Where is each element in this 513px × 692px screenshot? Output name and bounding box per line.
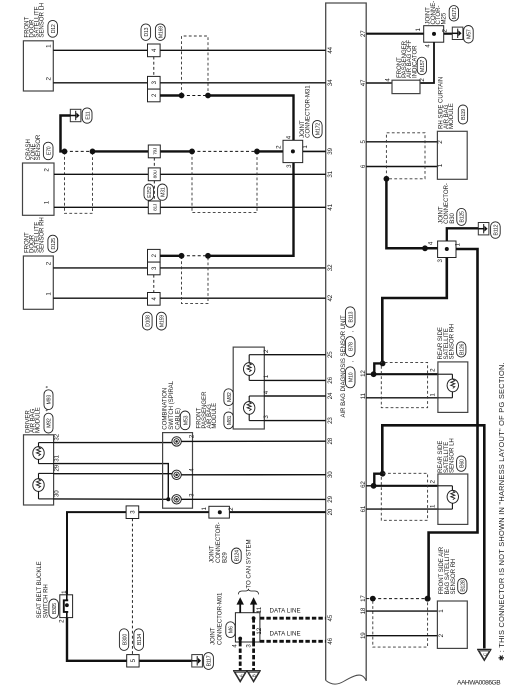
svg-text:E11: E11 <box>85 111 91 119</box>
svg-text:32: 32 <box>327 264 334 271</box>
svg-text:B29: B29 <box>222 552 229 563</box>
svg-text:M171: M171 <box>452 7 458 19</box>
svg-text:25: 25 <box>327 351 334 358</box>
svg-text:20: 20 <box>327 508 334 515</box>
svg-text:47: 47 <box>360 79 367 86</box>
wires passenger module to unit 25/26/24/23 <box>264 354 325 356</box>
wire D125 pin2 to unit 32 <box>53 267 325 269</box>
svg-text:CONNECTOR-M01: CONNECTOR-M01 <box>217 592 224 645</box>
svg-text:CONNECTOR-M31: CONNECTOR-M31 <box>305 85 312 138</box>
spiral cable terminals <box>172 437 181 446</box>
joint connector B30 (B125) <box>438 241 456 258</box>
svg-text:AIR BAG DIAGNOSIS SENSOR UNIT: AIR BAG DIAGNOSIS SENSOR UNIT <box>340 315 347 417</box>
combination switch (spiral cable) M53 <box>163 433 193 509</box>
svg-text:28: 28 <box>327 437 334 444</box>
svg-text:44: 44 <box>327 46 334 53</box>
svg-text:45: 45 <box>327 614 334 621</box>
svg-text:29: 29 <box>53 464 60 471</box>
RH side curtain air bag module B119 <box>366 141 437 143</box>
svg-text:42: 42 <box>327 294 334 301</box>
switch contact glyph <box>66 595 68 600</box>
svg-text:✱ : THIS CONNECTOR IS NOT SHOW: ✱ : THIS CONNECTOR IS NOT SHOWN IN "HARN… <box>497 362 506 661</box>
shield box dots on wire 39 row <box>192 152 257 213</box>
rear RH squib <box>438 373 453 375</box>
svg-text:24: 24 <box>327 392 334 399</box>
svg-text:B30: B30 <box>449 212 456 223</box>
rear side satellite sensor LH B60 <box>366 485 373 487</box>
svg-text:B113: B113 <box>348 311 354 322</box>
connector square 3 (B300/B134) <box>126 506 139 519</box>
svg-text:SENSOR RH: SENSOR RH <box>449 324 456 360</box>
wires driver module to combination switch <box>54 442 172 444</box>
svg-text:B305: B305 <box>52 603 58 614</box>
shield box around D12 wires <box>182 36 209 95</box>
svg-text:D125: D125 <box>51 238 57 250</box>
svg-text:81J: 81J <box>153 203 159 211</box>
svg-text:B124: B124 <box>235 550 241 561</box>
wire B30 to ground B112 <box>447 228 479 241</box>
shield box around D125 wires <box>182 256 209 303</box>
CAN up arrows <box>237 597 244 604</box>
connector squares D13/M169 <box>141 24 151 41</box>
svg-text:E70: E70 <box>46 146 52 155</box>
front passenger air bag off indicator M157 <box>366 82 392 84</box>
svg-text:TO CAN SYSTEM: TO CAN SYSTEM <box>245 539 252 588</box>
joint connector M31 (M172) <box>283 140 303 162</box>
svg-text:17: 17 <box>360 595 367 602</box>
connector squares D108/M159 <box>148 249 161 262</box>
svg-text:B112: B112 <box>494 224 500 235</box>
wire D12 pin2 to unit 34 <box>53 82 325 84</box>
svg-text:31: 31 <box>327 170 334 177</box>
wires combination switch to unit 28/30/29 <box>181 440 325 442</box>
svg-text:B300: B300 <box>122 634 128 645</box>
shield box around curtain wires <box>386 133 425 179</box>
unit connector labels M10 B78 B113 <box>345 367 355 388</box>
svg-text:SENSOR RH: SENSOR RH <box>38 217 45 253</box>
wire D125 pin1 to unit 42 <box>53 297 325 299</box>
svg-text:12: 12 <box>360 370 367 377</box>
svg-text:DATA LINE: DATA LINE <box>270 608 301 615</box>
svg-text:26: 26 <box>327 376 334 383</box>
wire unit 27 to joint connector M25 <box>366 33 424 35</box>
svg-text:D12: D12 <box>51 24 57 33</box>
driver air bag module M92/M93 <box>24 435 54 505</box>
off-page reference triangle A <box>233 670 247 672</box>
joint connector M25 (M171) <box>424 26 444 43</box>
svg-text:27: 27 <box>360 30 367 37</box>
off-page wire C to rear LH sensor shield <box>382 425 484 648</box>
svg-text:M172: M172 <box>316 123 322 135</box>
svg-text:18: 18 <box>360 607 367 614</box>
front side air bag satellite sensor RH B128 <box>366 598 370 600</box>
svg-text:M53: M53 <box>183 415 189 425</box>
svg-text:M93: M93 <box>47 395 53 405</box>
shield drain RH door: square2 to M31 bottom <box>160 255 181 257</box>
air bag diagnosis sensor unit <box>326 3 367 681</box>
svg-text:M25: M25 <box>440 12 447 24</box>
svg-text:SENSOR LH: SENSOR LH <box>449 438 456 473</box>
passenger squib 1 <box>249 354 264 356</box>
svg-text:D13: D13 <box>144 27 150 36</box>
svg-text:B117: B117 <box>207 655 213 666</box>
svg-text:80U: 80U <box>153 169 159 178</box>
wire D12 pin1 to unit 44 <box>53 49 325 51</box>
svg-text:D108: D108 <box>146 315 152 327</box>
svg-text:30: 30 <box>53 490 60 497</box>
svg-text:MODULE: MODULE <box>448 103 455 129</box>
front door satellite sensor LH D12 <box>23 41 53 91</box>
data line wires (CAN) <box>260 617 326 620</box>
svg-text:61: 61 <box>360 505 367 512</box>
svg-text:32: 32 <box>53 433 60 440</box>
svg-text:B: B <box>252 674 257 677</box>
crash zone wire pin1 to unit 41 <box>54 206 326 208</box>
svg-text:M10: M10 <box>348 372 354 382</box>
svg-text:M169: M169 <box>159 26 165 38</box>
crash zone wire pin2 to unit 31 <box>54 173 326 175</box>
shield drain LH door: square2 to joint connector M31 <box>160 94 181 96</box>
svg-text:M82: M82 <box>227 392 233 402</box>
off-page reference triangle B <box>246 670 260 672</box>
svg-text:19: 19 <box>360 632 367 639</box>
svg-text:12: 12 <box>256 627 263 634</box>
svg-text:41: 41 <box>327 203 334 210</box>
svg-text:B78: B78 <box>348 342 354 351</box>
svg-text:B134: B134 <box>137 634 143 645</box>
driver squib 2 <box>39 472 54 474</box>
svg-text:B126: B126 <box>459 343 465 354</box>
wire B30 pin3 down to rear RH sensor shield <box>382 258 447 364</box>
svg-text:39: 39 <box>327 147 334 154</box>
wire B30 right pin down to front side sensor shield <box>429 249 478 599</box>
wire 39 row through squares to M31 <box>160 150 192 152</box>
front passenger air bag module M81/M82 <box>233 347 264 429</box>
svg-text:11: 11 <box>256 606 263 613</box>
wire M25 to ground M57 <box>444 33 453 35</box>
svg-text:AAHWA0086GB: AAHWA0086GB <box>457 679 501 686</box>
passenger squib 2 <box>249 395 264 397</box>
rear LH squib <box>438 485 453 487</box>
wire switch pin2 to ground B117 <box>67 618 127 661</box>
svg-text:M81: M81 <box>227 415 233 425</box>
svg-text:E152: E152 <box>147 186 153 197</box>
svg-text:30: 30 <box>327 471 334 478</box>
svg-text:M57: M57 <box>467 29 473 39</box>
svg-text:MODULE: MODULE <box>35 407 42 433</box>
drain wire from E11 to wire 39 row <box>61 116 71 152</box>
svg-text:11: 11 <box>360 392 367 399</box>
svg-text:M159: M159 <box>160 315 166 327</box>
shield box around crash zone wires <box>65 152 93 214</box>
curtain shield drain to joint connector B30 <box>384 176 390 182</box>
svg-text:B125: B125 <box>460 211 466 222</box>
wire M25 pin4 down to indicator <box>420 42 434 83</box>
svg-text:23: 23 <box>327 417 334 424</box>
svg-text:62: 62 <box>360 481 367 488</box>
svg-text:SWITCH RH: SWITCH RH <box>42 584 49 618</box>
inline connector squares 79J 80U 81J (E152/M31) <box>148 145 160 158</box>
rear side satellite sensor RH B126 <box>366 373 373 375</box>
svg-text:SENSOR: SENSOR <box>35 134 42 160</box>
svg-text:79J: 79J <box>153 147 159 155</box>
svg-text:M31: M31 <box>161 187 167 197</box>
svg-text:MODULE: MODULE <box>211 403 218 429</box>
ground B117 <box>192 655 203 667</box>
svg-text:B119: B119 <box>461 109 467 120</box>
svg-text:46: 46 <box>327 637 334 644</box>
svg-text:SENSOR LH: SENSOR LH <box>38 3 45 38</box>
svg-text:SENSOR RH: SENSOR RH <box>450 559 457 595</box>
joint connector B29 (B124) <box>209 506 230 518</box>
front door satellite sensor RH D125 <box>23 256 53 309</box>
svg-text:B60: B60 <box>459 459 465 468</box>
svg-text:M6: M6 <box>229 626 235 633</box>
svg-text:34: 34 <box>327 79 334 86</box>
wire 20 row: seat belt buckle to unit 20 via B300/B134 and B29 <box>67 512 126 595</box>
svg-text:M92: M92 <box>47 418 53 428</box>
svg-text:B128: B128 <box>461 580 467 591</box>
ground E11 <box>70 109 81 121</box>
driver squib 1 <box>39 442 54 444</box>
svg-text:29: 29 <box>327 495 334 502</box>
off-page reference triangle C <box>477 648 491 650</box>
striped stems to off-page triangles A and B <box>239 642 242 671</box>
svg-text:DATA LINE: DATA LINE <box>270 631 301 638</box>
crash zone sensor E70 <box>23 163 55 215</box>
svg-text:M157: M157 <box>420 60 426 72</box>
svg-text:31: 31 <box>53 455 60 462</box>
